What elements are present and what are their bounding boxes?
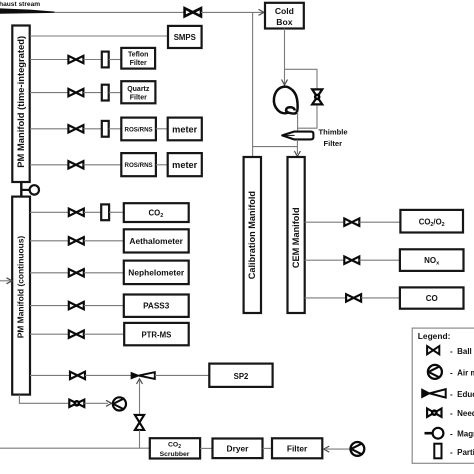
- svg-text:Cold: Cold: [275, 6, 294, 16]
- wire valve to CO2/O2: [359, 221, 400, 223]
- wire to PASS3: [84, 305, 124, 307]
- svg-text:CO: CO: [426, 294, 438, 303]
- particle filter (Teflon line): [102, 52, 109, 68]
- box Dryer: [213, 439, 263, 459]
- box ROS/RNS-1: [121, 118, 156, 141]
- svg-text:ROS/RNS: ROS/RNS: [124, 162, 152, 169]
- svg-text:Filter: Filter: [287, 444, 308, 454]
- svg-text:Filter: Filter: [324, 139, 343, 148]
- legend ball valve symbol: [427, 346, 439, 354]
- wire to Nephelometer: [84, 272, 124, 274]
- svg-text:CEM Manifold: CEM Manifold: [291, 207, 301, 268]
- valve ball (Quartz line): [68, 89, 83, 96]
- Calibration Manifold: [244, 157, 261, 313]
- wire bypass top: [285, 69, 318, 88]
- svg-text:Filter: Filter: [130, 94, 147, 101]
- wire manifold drain stub: [19, 395, 69, 404]
- pump below Cold Box: [274, 87, 298, 114]
- valve ball (CO2/O2 line): [344, 219, 359, 226]
- wire air mover to filter: [326, 448, 351, 450]
- svg-text:ROS/RNS: ROS/RNS: [124, 126, 152, 133]
- particle filter (ROS/RNS-1): [102, 121, 109, 137]
- legend box: [412, 328, 474, 463]
- svg-text:SMPS: SMPS: [174, 33, 196, 42]
- wire scrubber to dryer: [200, 447, 212, 449]
- wire to particle filter: [84, 211, 101, 213]
- wire to particle filter: [83, 128, 101, 130]
- svg-text:Quartz: Quartz: [127, 86, 150, 93]
- valve ball (suction, vertical): [135, 415, 144, 430]
- valve ball (PASS3): [69, 302, 84, 309]
- box Teflon Filter: [121, 48, 155, 69]
- wire dryer to filter: [263, 447, 273, 449]
- valve ball (CO2 line): [69, 209, 84, 216]
- wire branch to calibration manifold: [252, 12, 254, 157]
- wire ROS/RNS-2 to meter-2: [156, 164, 168, 166]
- wire to CO2: [109, 211, 124, 213]
- valve ball (SP2 line): [70, 372, 85, 379]
- arrow into continuous manifold: [7, 278, 13, 284]
- svg-text:Calibration Manifold: Calibration Manifold: [247, 191, 257, 279]
- wire thimble filter to CEM manifold: [296, 140, 298, 154]
- instrument PASS3: [124, 295, 189, 317]
- wire Cold Box down to pump: [284, 29, 286, 85]
- eductor (SP2 line): [131, 373, 138, 379]
- legend eductor symbol: [422, 389, 430, 397]
- wire manifold to SP2 valve: [30, 374, 70, 376]
- instrument Nephelometer: [124, 261, 189, 285]
- svg-text:meter: meter: [172, 160, 197, 170]
- thimble filter: [282, 132, 313, 140]
- box ROS/RNS-2: [121, 153, 156, 176]
- wire valve to Cold Box: [201, 11, 264, 13]
- wire CEM to CO2/O2 valve: [305, 221, 345, 223]
- svg-text:Aethalometer: Aethalometer: [129, 236, 183, 246]
- analyzer CO: [400, 287, 464, 308]
- wire CEM to NOx valve: [305, 259, 345, 261]
- wire manifold to Aethalometer valve: [30, 240, 69, 242]
- valve ball (ROS/RNS-2): [68, 161, 83, 168]
- svg-text:Filter: Filter: [130, 60, 147, 67]
- svg-text:- Magnehelic: - Magnehelic: [450, 430, 474, 439]
- wire junction to CEM feed: [253, 146, 298, 148]
- wire exhaust line to valve: [54, 11, 185, 13]
- valve ball (NOx line): [344, 257, 359, 264]
- needle valve (drain): [69, 400, 84, 407]
- wire manifold to PASS3 valve: [30, 305, 69, 307]
- PM Manifold (time-integrated): [12, 26, 29, 183]
- svg-text:PASS3: PASS3: [143, 302, 170, 311]
- wire main scrubber line: [0, 447, 150, 449]
- wire manifold to ROS/RNS-1 valve: [30, 128, 68, 130]
- svg-text:Thimble: Thimble: [319, 127, 348, 136]
- svg-text:PM Manifold (time-integrated): PM Manifold (time-integrated): [15, 36, 26, 168]
- wire to PTR-MS: [84, 333, 125, 335]
- wire manifold to ROS/RNS-2 valve: [30, 164, 68, 166]
- wire to ROS/RNS-2: [83, 164, 121, 166]
- wire to Teflon Filter: [109, 59, 122, 61]
- legend particle filter symbol: [434, 444, 441, 459]
- svg-text:meter: meter: [172, 124, 197, 134]
- box meter-2: [168, 153, 202, 176]
- box Quartz Filter: [121, 81, 155, 103]
- Cold Box: [265, 3, 304, 29]
- wire eductor suction down: [139, 381, 141, 415]
- particle filter (Quartz line): [102, 85, 109, 101]
- arrow into pump: [282, 80, 288, 86]
- legend needle valve symbol: [427, 409, 441, 417]
- svg-text:PM Manifold (continuous): PM Manifold (continuous): [16, 236, 26, 339]
- valve ball (Aethalometer): [69, 237, 84, 244]
- wire ROS/RNS-1 to meter-1: [156, 128, 168, 130]
- valve ball (Nephelometer): [69, 269, 84, 276]
- wire manifold to PTR-MS valve: [30, 333, 69, 335]
- svg-text:- Ball valve: - Ball valve: [450, 347, 474, 356]
- instrument CO2: [124, 203, 189, 222]
- box Filter: [272, 438, 322, 458]
- wire to Aethalometer: [84, 240, 124, 242]
- svg-text:SP2: SP2: [234, 372, 249, 381]
- wire to Quartz Filter: [109, 92, 122, 94]
- wire to particle filter: [83, 92, 101, 94]
- arrow into CEM manifold: [294, 151, 300, 156]
- wire to ROS/RNS-1: [109, 128, 122, 130]
- svg-text:Box: Box: [276, 17, 292, 27]
- particle filter (CO2 line): [101, 204, 109, 220]
- CEM Manifold: [288, 157, 305, 313]
- legend air mover symbol: [428, 365, 442, 379]
- svg-text:Teflon: Teflon: [128, 51, 148, 58]
- instrument Aethalometer: [124, 229, 189, 252]
- svg-text:- Needle valve: - Needle valve: [450, 409, 474, 418]
- wire manifold to SMPS: [30, 35, 168, 37]
- svg-text:- Eductor: - Eductor: [450, 390, 474, 399]
- wire manifold to Nephelometer valve: [30, 272, 69, 274]
- valve ball (Teflon line): [68, 56, 83, 63]
- wire bypass bottom: [298, 105, 317, 128]
- wire pump to thimble filter: [297, 112, 299, 132]
- analyzer CO2/O2: [400, 210, 463, 233]
- wire manifold to Quartz valve: [30, 92, 68, 94]
- air mover (drain): [113, 397, 126, 410]
- valve ball (exhaust line): [185, 8, 201, 16]
- magnehelic gauge stub: [21, 189, 29, 191]
- valve ball (CO line): [346, 294, 361, 301]
- wire valve to NOx: [359, 259, 400, 261]
- wire to air mover: [84, 402, 108, 404]
- wire eductor to SP2: [155, 374, 209, 376]
- svg-text:Exhaust stream: Exhaust stream: [0, 1, 40, 8]
- instrument SMPS: [168, 26, 202, 48]
- magnehelic gauge: [30, 185, 39, 194]
- valve ball (PTR-MS): [69, 331, 84, 338]
- wire exhaust duct taper: [0, 8, 55, 13]
- valve ball (ROS/RNS-1): [68, 125, 83, 132]
- svg-text:- Particle filter: - Particle filter: [450, 448, 474, 457]
- wire manifold interconnect: [20, 183, 22, 197]
- wire valve to scrubber line: [139, 430, 141, 448]
- svg-text:- Air mover: - Air mover: [450, 369, 474, 378]
- arrow up into eductor: [137, 379, 143, 384]
- PM Manifold (continuous): [12, 197, 30, 395]
- analyzer NOx: [400, 249, 464, 271]
- instrument PTR-MS: [124, 323, 189, 345]
- arrow into Cold Box: [259, 9, 265, 15]
- wire inlet into continuous manifold: [0, 280, 10, 282]
- svg-text:Scrubber: Scrubber: [160, 451, 190, 458]
- legend magnehelic symbol: [425, 432, 433, 435]
- box meter-1: [168, 118, 202, 141]
- air mover (bottom): [351, 442, 365, 456]
- svg-text:PTR-MS: PTR-MS: [141, 330, 171, 339]
- wire valve to CO: [361, 297, 400, 299]
- svg-text:Legend:: Legend:: [418, 331, 451, 341]
- wire manifold to CO2 valve: [30, 211, 69, 213]
- svg-text:Nephelometer: Nephelometer: [128, 268, 185, 278]
- wire CEM to CO valve: [305, 297, 346, 299]
- svg-text:Dryer: Dryer: [227, 444, 250, 454]
- instrument SP2: [209, 364, 272, 387]
- arrow into air mover: [106, 400, 112, 406]
- wire valve to eductor: [85, 374, 131, 376]
- wire manifold to Teflon valve: [30, 59, 68, 61]
- box CO2 Scrubber: [150, 438, 200, 458]
- wire to particle filter: [83, 59, 101, 61]
- arrow into filter: [324, 446, 330, 452]
- needle valve (bypass, vertical): [312, 89, 322, 104]
